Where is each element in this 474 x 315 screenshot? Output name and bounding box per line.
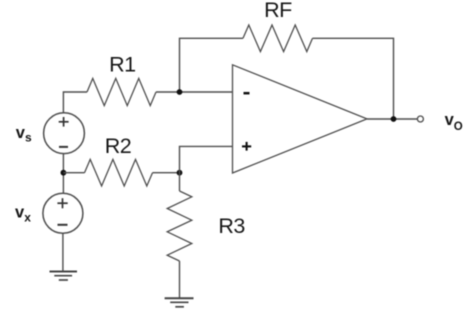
svg-text:vx: vx <box>15 203 31 224</box>
wire <box>179 261 181 298</box>
wire <box>63 172 84 174</box>
wire <box>62 233 64 271</box>
wire <box>62 154 64 194</box>
wire <box>153 172 180 174</box>
terminal vO <box>417 116 423 122</box>
node output junction <box>391 116 397 122</box>
ground <box>165 298 194 307</box>
svg-text:R3: R3 <box>218 214 245 238</box>
svg-text:R2: R2 <box>105 134 131 158</box>
voltage source Vs <box>44 113 85 154</box>
svg-text:vO: vO <box>445 111 463 133</box>
wire <box>180 38 244 92</box>
wire <box>179 173 181 191</box>
svg-text:RF: RF <box>264 0 292 22</box>
voltage source Vx <box>43 193 83 233</box>
wire <box>367 118 417 120</box>
svg-text:vs: vs <box>16 124 32 145</box>
wire <box>63 92 87 113</box>
ground <box>50 272 78 281</box>
wire <box>156 91 233 93</box>
node junction at inverting input <box>177 89 183 95</box>
resistor R1 <box>87 78 156 105</box>
wire <box>180 146 233 172</box>
node junction below Vs <box>61 170 67 176</box>
resistor R2 <box>85 159 153 186</box>
resistor RF <box>243 25 313 52</box>
node junction at R2/R3 <box>177 170 183 176</box>
resistor R3 <box>167 191 192 261</box>
op-amp U1 <box>233 65 368 173</box>
wire <box>313 38 394 119</box>
svg-text:R1: R1 <box>109 52 135 76</box>
